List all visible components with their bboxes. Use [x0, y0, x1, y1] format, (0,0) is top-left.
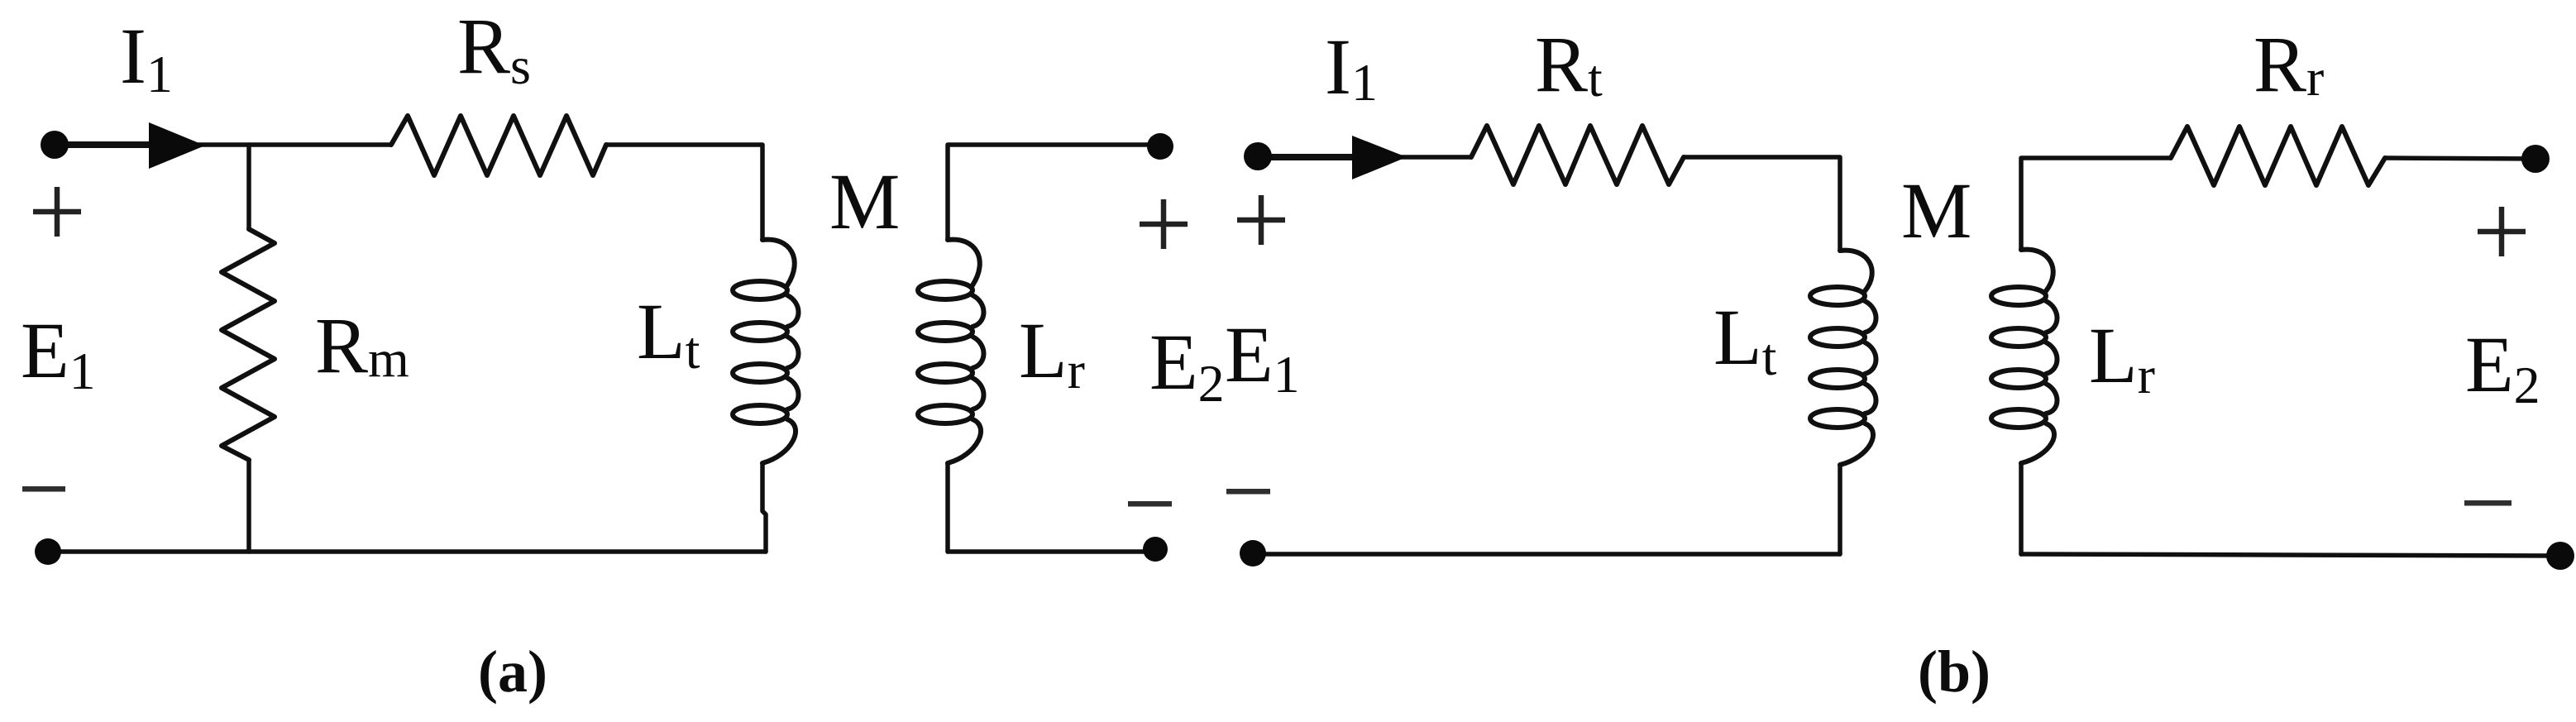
wire: secondary (b) top corner to resistor Rr: [2021, 158, 2171, 250]
svg-text:Rs: Rs: [457, 2, 531, 95]
arrowhead: current I1 (a): [149, 122, 205, 169]
node: terminal dot E1+ (a): [41, 131, 69, 159]
wire: Lt bottom lead (a): [762, 463, 766, 552]
svg-text:E2: E2: [1149, 318, 1225, 413]
polarity minus E2 (b): [2464, 500, 2511, 506]
resistor Rt: [1471, 126, 1684, 184]
node: terminal dot E2- (a): [1143, 537, 1168, 562]
wire: secondary (b) bottom rail: [2021, 554, 2560, 556]
svg-text:Rm: Rm: [315, 301, 409, 390]
wire: bottom rail (b) primary: [1253, 552, 1840, 557]
svg-text:Lt: Lt: [1713, 293, 1777, 386]
node: terminal dot E2+ (a): [1147, 133, 1173, 160]
polarity plus E2 (b): [2478, 229, 2526, 235]
polarity minus E1 (a): [22, 486, 65, 492]
svg-text:I1: I1: [120, 12, 173, 103]
node: terminal dot E2- (b): [2546, 542, 2574, 570]
svg-text:E1: E1: [21, 306, 96, 400]
svg-text:Lr: Lr: [2089, 311, 2155, 404]
resistor Rm: [222, 229, 275, 460]
polarity plus E1 (a): [33, 209, 81, 215]
inductor Lt (a) coil: [733, 240, 799, 463]
polarity plus E2 (a): [1140, 222, 1188, 227]
node: terminal dot E1+ (b): [1244, 142, 1272, 170]
svg-text:Lr: Lr: [1019, 306, 1085, 399]
wire: I1 arrow shaft (a): [55, 141, 157, 148]
svg-text:E1: E1: [1225, 310, 1300, 404]
node: terminal dot E1- (b): [1240, 540, 1266, 567]
resistor Rr: [2171, 127, 2385, 185]
wire: bottom rail (a) primary: [48, 549, 766, 554]
inductor Lr (a) coil: [918, 240, 984, 463]
wire: Rm bottom lead: [246, 460, 251, 552]
inductor Lt (b) coil: [1810, 251, 1876, 465]
wire: Lt (b) bottom lead: [1838, 465, 1842, 554]
wire: circuit (b) left terminal to resistor Rt: [1258, 155, 1471, 160]
wire: I1 arrow shaft (b): [1259, 154, 1360, 160]
svg-text:Rr: Rr: [2253, 20, 2324, 108]
resistor Rs: [391, 116, 606, 175]
wire: circuit (a) left terminal to resistor Rs: [53, 142, 391, 147]
wire: secondary (a) top with corner: [948, 145, 1160, 240]
svg-text:M: M: [1901, 166, 1971, 255]
wire: junction to resistor Rm top lead: [246, 145, 251, 229]
polarity plus E1 (b): [1237, 218, 1285, 223]
svg-text:I1: I1: [1325, 22, 1378, 112]
inductor Lr (b) coil: [1991, 250, 2057, 463]
node: terminal dot E2+ (b): [2521, 145, 2550, 173]
arrowhead: current I1 (b): [1352, 136, 1407, 179]
svg-text:E2: E2: [2465, 320, 2540, 414]
wire: Lr (b) bottom lead: [2019, 463, 2024, 554]
svg-text:(b): (b): [1918, 638, 1991, 705]
polarity minus E2 (a): [1128, 501, 1172, 507]
svg-text:(a): (a): [478, 638, 547, 705]
wire: Rt to inductor Lt (b) top corner: [1684, 157, 1840, 251]
svg-text:Rt: Rt: [1535, 20, 1603, 108]
wire: Rr to right terminal (b): [2385, 158, 2535, 159]
node: terminal dot E1- (a): [35, 538, 61, 565]
svg-text:Lt: Lt: [637, 287, 700, 380]
wire: secondary (a) bottom rail: [948, 549, 1155, 554]
polarity minus E1 (b): [1226, 489, 1270, 495]
wire: Lr bottom lead (a): [945, 463, 950, 552]
wire: Rs to inductor Lt top corner: [606, 145, 762, 240]
svg-text:M: M: [829, 157, 900, 246]
